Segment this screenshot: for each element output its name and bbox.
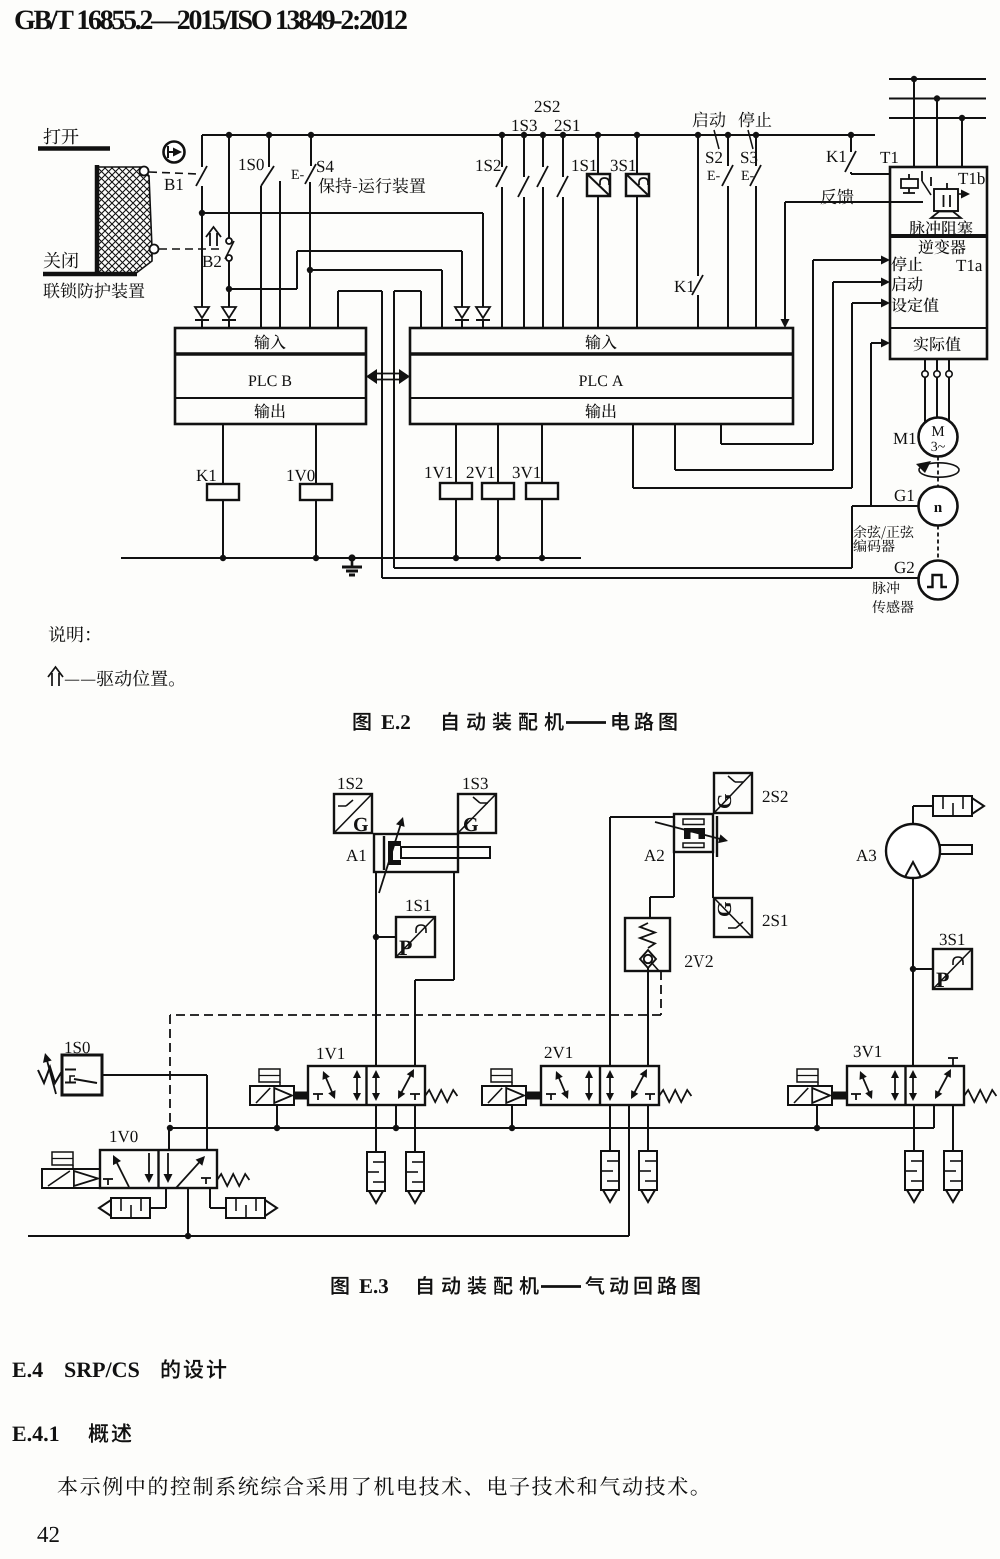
proximity switch 3S1 [611,160,636,172]
valve solenoid 1V0 coil [288,470,315,482]
A2 left port pipe [610,816,674,818]
document header [15,10,406,29]
T1 internal contactor symbol [908,174,910,179]
body paragraph [58,1476,697,1496]
relay contact K1 to inverter T1 [827,151,846,162]
mechanical link dashed to B1 [149,172,198,174]
sensor 2S1 [763,915,788,927]
actuating direction symbol (circle arrow) [164,142,185,163]
2V2 output to 2V1 [647,968,649,1066]
valve solenoid 2V1 coil [467,467,495,479]
1V0 right muffler [209,1188,211,1208]
sensor 1S3 [464,778,488,790]
figure E.2 caption [354,713,371,731]
T1 label 逆变器 [919,239,966,254]
wire PLCA out to T1 start [674,424,676,470]
three-phase supply lines [889,78,986,80]
motor M1 [894,433,916,444]
hold-to-run device S4 [317,161,334,173]
switch 1S3 [513,120,537,132]
legend line ⇑——驱动位置。 [48,667,63,686]
PLC interconnect double arrow [372,373,404,375]
mechanical link dashed to B2 [159,248,223,250]
T1 label 脉冲阻塞 [910,221,973,236]
wire bridge G1 to PLC A [420,291,422,328]
heading E.4 [12,1363,42,1378]
roller valve 1S0 [66,1042,90,1054]
gripper A2 [644,850,664,861]
label 余弦/正弦 编码器 [854,525,914,539]
wire G1 to PLC A [852,505,919,507]
wire B1 to PLC A [202,212,483,214]
switch 2S1 [555,120,580,132]
1S0 to 1V0 pipe [102,1074,207,1076]
relay coil K1 [197,470,216,481]
wire 1S0 second pole [279,181,281,328]
feedback wire T1 to PLC A [785,201,923,203]
guard hinge circle top [140,167,149,176]
rotary actuator A3 [856,850,876,862]
adjustment arrow through A1 piston [379,823,401,893]
actuation arrow symbol [206,227,221,246]
guard open label 打开 [44,128,79,144]
T1 input 停止 [891,256,922,271]
muffler at A3 [933,796,972,816]
A2 bottom port pipe [673,852,675,897]
T1 input 设定值 [892,298,939,313]
check valve 2V2 [685,955,713,967]
T1 output terminals [924,359,926,371]
stop button label 停止 [739,112,772,128]
rotation ellipse [919,463,959,477]
top supply bus [202,134,875,136]
pilot line dashed 2V2 to manifold [660,971,662,1015]
3V1 blocked port top [948,1057,958,1059]
A1 right port pipe [453,872,455,980]
1V0 pilot actuator [42,1169,100,1188]
valve 3V1 [854,1046,882,1058]
valve 1V1 [318,1048,345,1060]
pushbutton S2 [706,152,722,164]
T1 pulse-block symbol [946,183,948,189]
wire G1 to T1 actual value [870,343,872,506]
2V1 supply from rail [628,1105,630,1236]
1V1 mufflers [367,1152,385,1191]
relay contact K1 to PLC A [675,281,694,292]
wire G2 to PLC B [382,577,919,579]
S4 label 保持-运行装置 [318,178,425,194]
diode B1-PLCB [195,307,209,318]
guard closed label 关闭 [44,252,78,269]
interlocking guard label 联锁防护装置 [44,283,145,299]
1V0 supply down to rail [187,1188,189,1236]
wire S4 to PLC A [310,269,442,271]
diode B2-PLCA [455,307,469,318]
T1 output 实际值 [914,337,961,352]
pressure switch 1S1 [407,900,431,912]
wire B2 to PLC A [229,288,297,290]
switch 1S0 [240,159,264,171]
2V1 mufflers [601,1151,619,1190]
3V1 supply from manifold [933,1105,935,1128]
air supply rail [28,1235,629,1237]
3V1 mufflers [905,1151,923,1190]
switch 2S2 [535,101,560,113]
A3 bottom pipe [912,878,914,1066]
T1 internal contact [921,171,923,181]
PLC B [175,328,366,424]
valve solenoid 1V1 coil [426,467,453,479]
A1 left port pipe [375,872,377,1066]
1V0 left muffler [165,1188,167,1208]
encoder G1 [895,490,914,502]
wire PLCA out to T1 stop [720,424,722,444]
position switch B2 [203,256,221,267]
sensor 2S2 [763,791,788,803]
valve 2V1 [545,1047,573,1059]
pushbutton S3 [741,152,757,164]
0V rail [121,557,581,559]
switch 1S2 [477,160,501,172]
1V0 return spring [217,1174,249,1186]
wire PLCA out to T1 setpoint [632,424,634,488]
ground symbol [348,554,355,561]
diode B1-PLCA [476,307,490,318]
heading E.4.1 [12,1427,58,1442]
feedback label 反馈 [821,189,854,205]
pressure switch 3S1 [940,934,965,946]
proximity switch 1S1 [573,160,597,172]
wire bridge G2 to PLC B [337,291,339,328]
legend 说明： [49,626,90,642]
manifold line [170,1127,934,1129]
guard hinge circle bottom [150,245,159,254]
figure E.3 caption [332,1277,349,1295]
frequency inverter T1 [880,152,898,163]
T1 input 启动 [892,276,923,291]
start button label 启动 [693,112,726,128]
PLC A [410,328,793,424]
label 脉冲 传感器 [873,581,900,594]
page number [37,1527,58,1542]
shut-off valve 1V0 [111,1131,138,1143]
valve solenoid 3V1 coil [513,467,541,479]
interlocking guard (hatched door) [97,167,152,274]
sensor 1S2 [339,778,363,790]
position switch B1 [165,179,183,190]
diode B2-PLCB [222,307,236,318]
cylinder A1 [346,850,366,861]
pulse sensor G2 [895,562,914,574]
